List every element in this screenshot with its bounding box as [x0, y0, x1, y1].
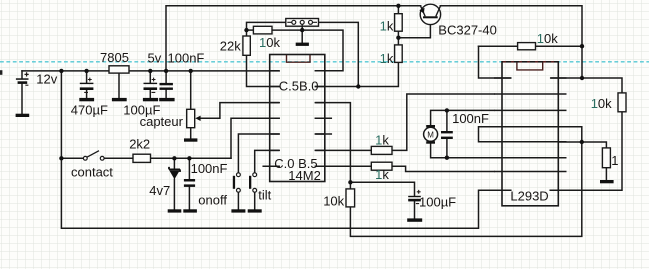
- wire 1k#4 from PIC pin7: [315, 165, 371, 167]
- wire 100uF stems: [149, 71, 151, 98]
- wire motor top to L293D pin3: [431, 110, 494, 125]
- junction motor top: [445, 108, 449, 112]
- svg-text:M: M: [427, 131, 434, 140]
- capacitor 470uF plates: [80, 83, 94, 90]
- resistor 10k top feed: [518, 43, 536, 50]
- junction motor bottom: [445, 156, 449, 160]
- ground connector: [296, 43, 309, 46]
- svg-text:contact: contact: [71, 165, 113, 180]
- junction base node: [396, 36, 400, 40]
- junction top wire 1k: [396, 4, 400, 8]
- junction connector mid ground node: [300, 28, 304, 32]
- cyan guide line: [0, 61, 649, 63]
- junction contact row left: [59, 156, 63, 160]
- wire tilt switch to ground: [254, 192, 256, 209]
- capacitor 100nF mid plates: [184, 179, 195, 187]
- junction 10k top row: [580, 44, 584, 48]
- svg-text:100nF: 100nF: [168, 51, 205, 66]
- junction rail-100uF: [148, 69, 152, 73]
- ground tilt: [248, 209, 262, 212]
- switch tilt pushbutton: [249, 176, 251, 189]
- wire rail to contact row drop: [60, 71, 62, 158]
- regulator 7805: [109, 66, 129, 73]
- ground 470uF: [79, 98, 94, 101]
- potentiometer capteur wiper arrow: [195, 116, 200, 121]
- transistor BC327 body: [420, 4, 440, 24]
- wire 470uF stems: [86, 71, 88, 98]
- wire bottom rail A: [61, 158, 510, 228]
- junction rail-capteur: [189, 69, 193, 73]
- pin PIC row2: [270, 86, 325, 88]
- svg-text:5v: 5v: [148, 51, 162, 66]
- wire 7805 ground stem: [118, 73, 120, 98]
- wire onoff switch to PIC pin: [238, 134, 279, 173]
- wire tilt switch to PIC pin: [255, 150, 280, 172]
- svg-text:12v: 12v: [36, 71, 57, 86]
- motor M body: [424, 127, 438, 141]
- svg-text:1k: 1k: [375, 133, 389, 148]
- wire 10k pullup bottom to L293D pin8 right: [550, 112, 622, 190]
- wire 100uF bottom stem: [414, 202, 416, 219]
- pin PIC row5: [270, 133, 325, 135]
- junction rail-470uF: [84, 69, 88, 73]
- resistor 2k2: [133, 154, 151, 162]
- svg-text:10k: 10k: [591, 96, 612, 111]
- ground 100uF bottom: [407, 218, 422, 221]
- wire 100nF motor cap stems: [446, 110, 448, 157]
- switch contact: [83, 156, 104, 160]
- ground 7805: [112, 98, 127, 101]
- capacitor 470uF polarity marks: [84, 78, 92, 93]
- svg-text:10k: 10k: [323, 194, 344, 209]
- svg-text:tilt: tilt: [258, 188, 271, 203]
- resistor 1k base bottom: [395, 45, 403, 63]
- svg-text:L293D: L293D: [510, 189, 548, 204]
- wire 1k#4 to L293D pin7: [392, 166, 494, 171]
- left edge tick: [0, 70, 2, 75]
- IC PIC notch: [287, 55, 311, 62]
- svg-text:1: 1: [611, 153, 618, 168]
- switch contact lever: [87, 151, 99, 158]
- pin PIC row3: [270, 102, 325, 104]
- svg-text:100µF: 100µF: [419, 194, 456, 209]
- ground 100nF mid: [183, 209, 197, 212]
- junction rail-100nF-topwire: [164, 69, 168, 73]
- wire 10k ser to connector mid node to PIC pin1 riser: [272, 30, 343, 71]
- ground battery: [16, 114, 30, 117]
- wire L293D pin1 right to 10k pullup: [551, 78, 622, 93]
- resistor 10k pullup right: [618, 93, 626, 112]
- wire 100nF decoupling stems: [165, 71, 167, 98]
- ground 100nF decoupling: [159, 98, 174, 101]
- junction L293D pin1 node: [580, 76, 584, 80]
- pin L293D row5: [494, 141, 567, 143]
- wire 1k#3 from PIC pin6: [315, 149, 371, 151]
- battery plus sign: [25, 72, 29, 85]
- ground onoff: [231, 209, 245, 212]
- wire battery positive stem: [21, 71, 23, 78]
- wire top 5v switched rail left segment: [166, 6, 421, 71]
- ground 100uF: [143, 98, 158, 101]
- wire connector right pin to serial in riser: [319, 22, 359, 86]
- wire PIC pin7 left stub: [263, 165, 279, 167]
- wire 10k ser left stub: [247, 29, 254, 31]
- pin PIC row7: [263, 165, 325, 167]
- capacitor 100uF bottom polarity marks: [416, 190, 421, 204]
- svg-text:10k: 10k: [259, 35, 280, 50]
- connector programming header: [286, 19, 319, 27]
- pin L293D row2: [494, 93, 567, 95]
- svg-text:1k: 1k: [380, 51, 394, 66]
- wire programming node to connector: [247, 22, 286, 30]
- wire PIC pin5 right stub: [315, 133, 331, 135]
- junction contact row zener: [172, 156, 176, 160]
- resistor 10k serial: [253, 26, 272, 34]
- motor brush bars: [426, 125, 435, 128]
- wire 22k stems and wire to PIC pin2: [247, 30, 280, 86]
- wire contact row segments: [61, 157, 231, 159]
- diode zener 4v7 cathode bar: [169, 167, 180, 172]
- svg-text:4v7: 4v7: [149, 183, 170, 198]
- ground capteur: [184, 138, 197, 141]
- svg-text:100nF: 100nF: [191, 161, 228, 176]
- pin L293D row7: [494, 171, 567, 173]
- resistor 1k motor drive B: [371, 162, 392, 170]
- resistor 10k pulldown: [346, 189, 355, 207]
- svg-text:1k: 1k: [380, 19, 394, 34]
- resistor 1k motor drive A: [371, 146, 392, 154]
- IC L293D body: [502, 62, 558, 206]
- junction sense node: [580, 140, 584, 144]
- svg-text:470µF: 470µF: [71, 103, 108, 118]
- svg-text:capteur: capteur: [140, 114, 184, 129]
- wire top rail right segment (collector to L293D feed): [440, 6, 582, 78]
- wire pot wiper to PIC pin RA: [200, 103, 280, 119]
- wire PIC pin3 right down to pulldown node: [315, 103, 350, 189]
- IC L293D notch: [517, 62, 543, 70]
- transistor BC327 emitter arrow: [419, 8, 424, 14]
- wire PIC pin2 right to 1k#2: [315, 62, 398, 86]
- wire 10k top row: [479, 45, 583, 47]
- junction 22k-10k node: [244, 28, 248, 32]
- pin L293D row8: [494, 189, 567, 191]
- wire 100nF mid stems: [188, 158, 190, 209]
- svg-text:onoff: onoff: [198, 193, 227, 208]
- wire PIC pin4 right stub: [315, 117, 331, 119]
- resistor 1k base top: [395, 14, 403, 32]
- junction contact row 100nF: [187, 156, 191, 160]
- svg-text:7805: 7805: [100, 50, 129, 65]
- ground zener 4v7: [168, 209, 182, 212]
- junction rail-contact drop: [59, 69, 63, 73]
- capacitor 100nF decoupling plates: [160, 83, 173, 90]
- svg-text:2k2: 2k2: [129, 137, 150, 152]
- potentiometer capteur body: [187, 109, 195, 127]
- capacitor 100uF polarity marks: [152, 78, 156, 93]
- connector pin circles: [292, 20, 313, 24]
- wire sense node row to 1 ohm: [558, 142, 606, 148]
- pin L293D row1: [494, 77, 567, 79]
- svg-text:22k: 22k: [220, 39, 241, 54]
- resistor 22k: [243, 36, 250, 55]
- wire pulldown node to 100uF cap: [350, 182, 414, 195]
- junction serial-in node: [356, 84, 360, 88]
- wire 1k#1 stems and base node: [398, 6, 430, 45]
- ground 1 ohm: [600, 180, 614, 183]
- capacitor 100uF bottom plates: [408, 196, 421, 202]
- capacitor 100uF plates: [144, 83, 158, 90]
- pin L293D row3: [494, 109, 567, 111]
- wire capteur pot stems: [190, 71, 192, 138]
- wire riser to L293D pin1: [479, 46, 511, 78]
- IC PIC 14M2 body: [270, 55, 325, 182]
- svg-text:100nF: 100nF: [452, 111, 489, 126]
- pin PIC row6: [270, 149, 325, 151]
- switch onoff pushbutton: [233, 176, 235, 189]
- junction pulldown node: [348, 180, 352, 184]
- wire L293D pin4 pin5 tie: [479, 127, 495, 142]
- wire battery negative stem: [21, 84, 23, 114]
- svg-text:BC327-40: BC327-40: [438, 23, 497, 38]
- svg-text:1k: 1k: [375, 167, 389, 182]
- battery 12v plates: [16, 78, 29, 84]
- wire motor bottom to L293D pin6: [431, 144, 494, 158]
- connector pin ticks: [287, 22, 317, 26]
- wire main 5v/12v rail: [22, 70, 279, 72]
- svg-text:10k: 10k: [537, 31, 558, 46]
- diode zener 4v7: [169, 170, 180, 179]
- wire 10k pulldown bottom rail B: [350, 142, 581, 236]
- transistor BC327 base bar: [423, 16, 438, 18]
- pin PIC row4: [270, 117, 325, 119]
- pin L293D row4: [494, 126, 567, 128]
- wire 1k#3 to L293D pin2: [392, 94, 494, 150]
- pin PIC row1: [270, 70, 325, 72]
- capacitor 100nF motor plates: [441, 131, 453, 139]
- wire L293D pin4 right to sense node: [558, 127, 582, 142]
- transistor BC327 emitter and collector legs: [421, 6, 441, 16]
- pin L293D row6: [494, 157, 567, 159]
- wire contact node up to PIC pin: [231, 118, 279, 158]
- svg-text:C.5B.0: C.5B.0: [279, 78, 319, 93]
- resistor 1 ohm: [602, 148, 610, 168]
- wire connector mid pin ground stem: [301, 26, 303, 42]
- IC L293D top edge red tint: [503, 61, 558, 63]
- wire 1 ohm bottom stem: [605, 168, 607, 180]
- wire onoff switch to ground: [237, 192, 239, 209]
- svg-text:14M2: 14M2: [288, 168, 321, 183]
- wire zener stems: [173, 158, 175, 209]
